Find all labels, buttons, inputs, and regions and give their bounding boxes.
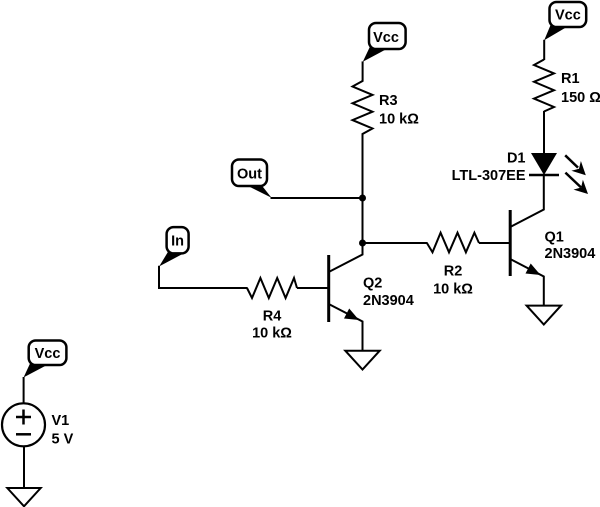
flag Vcc (top middle net flag): [363, 23, 406, 62]
svg-text:R3: R3: [379, 93, 398, 109]
resistor R3: [353, 81, 420, 135]
svg-text:V1: V1: [52, 413, 70, 429]
wire node B to R2 left: [363, 242, 428, 244]
svg-text:R1: R1: [561, 71, 580, 87]
svg-text:2N3904: 2N3904: [363, 293, 414, 309]
svg-text:Vcc: Vcc: [35, 346, 61, 362]
voltage source V1: [2, 403, 74, 447]
svg-text:Q1: Q1: [545, 230, 564, 246]
ground (Q1 emitter): [527, 306, 561, 325]
transistor Q2 (2N3904 NPN): [329, 243, 414, 351]
wire In to R4 left: [159, 266, 248, 288]
flag Vcc (V1 positive terminal): [24, 341, 67, 378]
svg-text:LTL-307EE: LTL-307EE: [452, 168, 526, 184]
svg-text:150 Ω: 150 Ω: [561, 90, 600, 106]
flag In: [159, 227, 188, 266]
flag Vcc (top right net flag): [544, 2, 586, 40]
svg-text:10 kΩ: 10 kΩ: [433, 282, 473, 298]
wire Out to node A: [271, 197, 363, 199]
wire Vcc flag to V1 plus: [23, 377, 25, 404]
svg-text:5 V: 5 V: [52, 432, 74, 448]
svg-text:D1: D1: [507, 151, 526, 167]
wire Vcc to R3 top: [362, 61, 364, 81]
svg-text:Vcc: Vcc: [555, 8, 581, 24]
LED light arrow 1: [565, 155, 586, 175]
LED D1: [452, 111, 559, 184]
wire R2 right to Q1 base: [479, 242, 510, 244]
node A (junction dot at Out tap): [359, 195, 366, 202]
resistor R1: [534, 60, 600, 112]
svg-text:10 kΩ: 10 kΩ: [379, 112, 419, 128]
svg-text:In: In: [171, 234, 184, 250]
svg-text:R4: R4: [263, 309, 282, 325]
svg-text:Q2: Q2: [363, 276, 382, 292]
svg-text:Vcc: Vcc: [373, 30, 399, 46]
node B (junction dot at Q2 collector / R2): [359, 240, 366, 247]
resistor R2: [427, 233, 479, 298]
wire Vcc to R1 top: [543, 40, 545, 60]
transistor Q1 (2N3904 NPN): [510, 175, 595, 306]
svg-text:2N3904: 2N3904: [545, 246, 596, 262]
flag Out: [232, 160, 272, 198]
resistor R4: [247, 278, 297, 342]
wire R4 right to Q2 base: [297, 287, 329, 289]
svg-text:R2: R2: [444, 263, 463, 279]
svg-text:10 kΩ: 10 kΩ: [252, 326, 292, 342]
svg-text:Out: Out: [237, 167, 262, 183]
ground (Q2 emitter): [345, 351, 379, 370]
ground (V1 negative): [7, 488, 40, 506]
wire R3 bottom to node at R2 (vertical main): [362, 134, 364, 244]
LED light arrow 2: [565, 173, 588, 194]
wire V1 minus to ground: [23, 447, 25, 489]
